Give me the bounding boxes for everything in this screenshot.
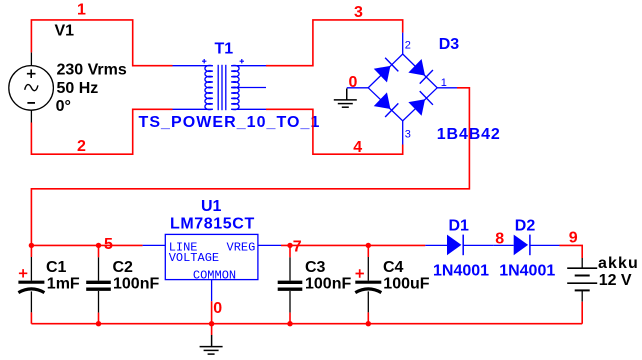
- bridge diode (top-right): [408, 59, 433, 84]
- svg-text:3: 3: [354, 4, 363, 21]
- capacitor C2: [86, 245, 111, 323]
- battery akku: [567, 258, 597, 302]
- svg-text:0: 0: [349, 74, 358, 91]
- svg-text:1: 1: [441, 77, 447, 89]
- svg-text:D2: D2: [515, 218, 536, 235]
- svg-text:T1: T1: [215, 41, 234, 58]
- bridge diode (left-top): [374, 58, 399, 83]
- svg-text:5: 5: [104, 236, 113, 253]
- wire net 3: [266, 20, 403, 66]
- svg-text:7: 7: [293, 238, 302, 255]
- svg-text:1N4001: 1N4001: [499, 262, 555, 279]
- ground (below U1): [200, 335, 223, 354]
- svg-text:50 Hz: 50 Hz: [57, 80, 99, 97]
- svg-text:akku: akku: [598, 255, 639, 272]
- svg-text:4: 4: [353, 139, 362, 156]
- capacitor C3: [278, 245, 303, 323]
- junction dot C4 bottom: [366, 321, 371, 326]
- svg-text:9: 9: [569, 230, 578, 247]
- junction dot common/bottom rail: [209, 321, 214, 326]
- svg-text:LM7815CT: LM7815CT: [170, 215, 255, 232]
- junction dot node 7: [287, 243, 292, 248]
- svg-text:D3: D3: [439, 36, 460, 53]
- transformer T1: [173, 59, 267, 110]
- svg-text:2: 2: [405, 39, 411, 51]
- junction dot C2 bottom: [96, 321, 101, 326]
- svg-text:U1: U1: [201, 198, 222, 215]
- voltage regulator U1: [143, 234, 281, 301]
- bridge diode (bottom-right): [408, 91, 433, 116]
- svg-text:TS_POWER_10_TO_1: TS_POWER_10_TO_1: [139, 114, 321, 131]
- junction dot C3 bottom: [287, 321, 292, 326]
- svg-text:VOLTAGE: VOLTAGE: [169, 251, 219, 265]
- diode D2: [493, 235, 559, 256]
- svg-text:1N4001: 1N4001: [433, 262, 489, 279]
- svg-text:12 V: 12 V: [599, 272, 632, 289]
- wire net 9: [560, 245, 583, 258]
- svg-text:100uF: 100uF: [383, 276, 429, 293]
- svg-text:C4: C4: [383, 259, 404, 276]
- svg-text:0: 0: [213, 300, 222, 317]
- svg-text:2: 2: [77, 138, 86, 155]
- svg-text:COMMON: COMMON: [193, 268, 236, 282]
- wire bottom rail: [31, 323, 582, 325]
- svg-text:C3: C3: [305, 259, 326, 276]
- svg-text:100nF: 100nF: [113, 276, 159, 293]
- svg-text:1: 1: [77, 2, 86, 19]
- svg-text:D1: D1: [449, 218, 470, 235]
- capacitor C1: [18, 245, 44, 323]
- capacitor C4: [355, 245, 381, 323]
- svg-text:3: 3: [405, 129, 411, 141]
- svg-text:V1: V1: [55, 23, 75, 40]
- svg-text:0°: 0°: [56, 98, 71, 115]
- junction dot node 5 at C2: [96, 243, 101, 248]
- svg-text:C1: C1: [46, 259, 67, 276]
- wire U1 common to ground (net 0): [211, 301, 213, 335]
- svg-text:230 Vrms: 230 Vrms: [57, 62, 127, 79]
- junction dot node 5 left: [29, 243, 34, 248]
- junction dot at C4 top: [366, 243, 371, 248]
- bridge rectifier D3: [347, 33, 457, 145]
- wire net 1: [31, 20, 172, 66]
- diode D1: [425, 235, 493, 256]
- wire top rail to U1 input: [31, 244, 142, 246]
- wire net 7 output rail: [281, 244, 425, 246]
- svg-text:1mF: 1mF: [47, 276, 80, 293]
- wire battery negative to bottom rail: [581, 302, 583, 324]
- wire bridge output to left rail: [31, 88, 469, 246]
- wire net 2: [31, 109, 172, 154]
- svg-text:100nF: 100nF: [305, 276, 351, 293]
- ground (bridge): [334, 89, 357, 108]
- ac source V1: [9, 52, 54, 122]
- svg-text:C2: C2: [113, 259, 134, 276]
- bridge diode (left-bottom): [374, 92, 399, 117]
- svg-text:VREG: VREG: [227, 241, 256, 255]
- wire net 4: [266, 109, 403, 154]
